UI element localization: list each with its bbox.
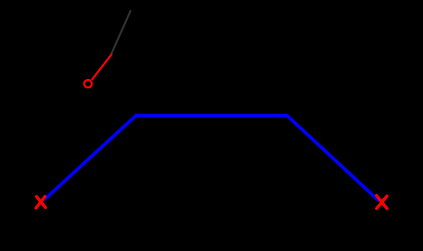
red string segment from ball [92, 55, 111, 80]
left X marker (red) [36, 197, 46, 209]
hill top (blue) [136, 114, 287, 117]
right X marker (red) [377, 196, 388, 209]
ball (open red circle) [84, 80, 92, 88]
faint pendulum string (upper dark segment) [111, 11, 131, 55]
hill left slope (blue) [45, 116, 136, 200]
hill right slope (blue) [287, 116, 378, 201]
